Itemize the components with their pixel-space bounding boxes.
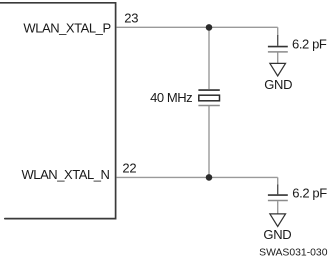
svg-text:SWAS031-030: SWAS031-030: [259, 248, 328, 257]
junction node bottom (pin22 / crystal): [206, 174, 213, 181]
IC U1 outline (WLAN device, clipped at left): [0, 3, 116, 219]
crystal Y1 40 MHz: [198, 90, 219, 105]
capacitor C2 6.2 pF (bottom): [268, 177, 288, 213]
wire pin22 horizontal: [116, 176, 277, 178]
svg-text:6.2 pF: 6.2 pF: [292, 36, 327, 51]
svg-text:23: 23: [124, 11, 138, 26]
svg-text:WLAN_XTAL_P: WLAN_XTAL_P: [23, 20, 110, 35]
svg-text:22: 22: [122, 161, 136, 176]
svg-text:GND: GND: [263, 227, 291, 242]
ground symbol (bottom): [270, 214, 286, 227]
wire crystal bottom vertical: [208, 106, 210, 177]
svg-text:WLAN_XTAL_N: WLAN_XTAL_N: [21, 167, 109, 182]
svg-text:GND: GND: [264, 77, 292, 92]
junction node top (pin23 / crystal): [206, 24, 213, 31]
capacitor C1 6.2 pF (top): [268, 27, 288, 63]
wire pin23 horizontal: [116, 26, 277, 28]
wire crystal top vertical: [208, 27, 210, 89]
svg-text:40 MHz: 40 MHz: [150, 90, 192, 105]
svg-text:6.2 pF: 6.2 pF: [292, 186, 327, 201]
ground symbol (top): [270, 63, 286, 76]
